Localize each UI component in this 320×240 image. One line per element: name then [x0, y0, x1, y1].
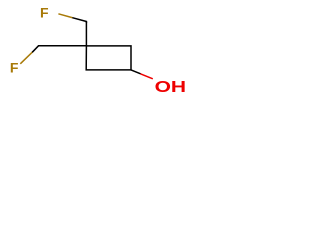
svg-text:F: F	[40, 4, 49, 20]
svg-text:OH: OH	[155, 79, 187, 96]
svg-text:F: F	[10, 60, 19, 76]
